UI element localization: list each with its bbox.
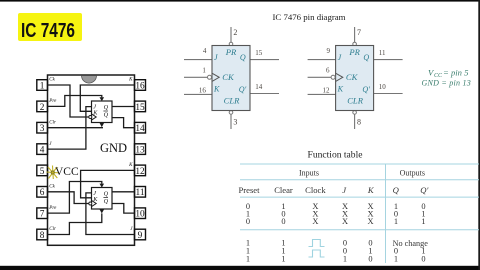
svg-text:6: 6 bbox=[40, 188, 45, 198]
U1a labels bbox=[213, 47, 247, 105]
svg-text:IC 7476 pin diagram: IC 7476 pin diagram bbox=[272, 12, 345, 22]
svg-text:3: 3 bbox=[40, 124, 45, 134]
pin 7 bbox=[37, 208, 48, 220]
svg-text:Q: Q bbox=[104, 112, 109, 119]
svg-text:1: 1 bbox=[281, 254, 285, 263]
pin 11 bbox=[135, 187, 146, 199]
GND label (pin 13) bbox=[100, 141, 127, 155]
svg-text:K: K bbox=[128, 163, 133, 168]
svg-text:Ck: Ck bbox=[49, 78, 55, 83]
pin 16 bbox=[135, 80, 146, 92]
pin 13 bbox=[135, 144, 146, 156]
table rows clocked bbox=[246, 238, 428, 263]
table group headers bbox=[299, 168, 425, 177]
VCC sparkle bbox=[47, 166, 59, 180]
svg-text:16: 16 bbox=[135, 81, 145, 91]
pin 15 bbox=[135, 101, 146, 113]
svg-text:Q′: Q′ bbox=[239, 85, 247, 94]
svg-text:GND: GND bbox=[100, 141, 127, 155]
svg-text:X: X bbox=[342, 217, 348, 226]
wire pin12 K to FF2 K bbox=[81, 170, 135, 197]
svg-text:K: K bbox=[128, 78, 133, 83]
pin 2 bbox=[37, 101, 48, 113]
pin 12 label K bbox=[128, 163, 133, 168]
svg-text:7: 7 bbox=[40, 210, 45, 220]
svg-text:2: 2 bbox=[40, 103, 45, 113]
frame top border bbox=[0, 0, 480, 2]
svg-text:0: 0 bbox=[421, 254, 425, 263]
svg-text:15: 15 bbox=[255, 49, 263, 57]
svg-text:Q: Q bbox=[363, 53, 369, 62]
VCC label (pin 5) bbox=[55, 166, 79, 178]
svg-text:11: 11 bbox=[136, 188, 145, 198]
svg-text:15: 15 bbox=[135, 103, 145, 113]
pin 9 bbox=[135, 229, 146, 241]
svg-text:Q: Q bbox=[104, 191, 109, 198]
svg-text:Clr: Clr bbox=[49, 227, 56, 232]
svg-text:Q: Q bbox=[393, 185, 400, 195]
pin 3 bbox=[37, 122, 48, 134]
svg-text:0: 0 bbox=[281, 217, 285, 226]
frame right border bbox=[478, 0, 480, 270]
svg-text:12: 12 bbox=[135, 167, 145, 177]
svg-text:14: 14 bbox=[255, 83, 263, 91]
clock pulse glyphs bbox=[309, 240, 325, 258]
title: none / flip-flop U1a pin-diagram bbox=[184, 27, 279, 129]
svg-text:0: 0 bbox=[368, 254, 372, 263]
pin 6 label Ck bbox=[49, 185, 55, 190]
svg-text:= pin 5: = pin 5 bbox=[443, 67, 469, 77]
pin 6 bbox=[37, 187, 48, 199]
title: none / flip-flop U1b pin-diagram bbox=[308, 27, 403, 129]
svg-text:4: 4 bbox=[203, 47, 207, 55]
function table rules bbox=[240, 164, 479, 263]
svg-text:PR: PR bbox=[225, 47, 237, 57]
svg-text:J: J bbox=[49, 142, 52, 147]
svg-text:9: 9 bbox=[138, 231, 143, 241]
svg-text:J: J bbox=[338, 53, 342, 62]
svg-text:1: 1 bbox=[246, 254, 250, 263]
pin 3 label Clr bbox=[49, 120, 56, 125]
pin 8 bbox=[37, 229, 48, 241]
svg-text:CK: CK bbox=[222, 72, 235, 82]
svg-text:CK: CK bbox=[346, 72, 359, 82]
svg-text:IC 7476: IC 7476 bbox=[21, 19, 75, 42]
wire pin3 CLR to FF1 clear (arrow) bbox=[48, 123, 105, 128]
title badge IC 7476 bbox=[18, 13, 82, 42]
pin diagram title bbox=[272, 12, 345, 22]
wire FF2 Q to pin11 bbox=[112, 191, 135, 193]
pin 2 label Pre bbox=[48, 99, 57, 104]
svg-text:Q: Q bbox=[104, 198, 109, 205]
flip-flop FF2 inside DIP bbox=[89, 188, 112, 210]
svg-text:Ck: Ck bbox=[49, 185, 55, 190]
svg-text:X: X bbox=[367, 217, 373, 226]
svg-text:Clear: Clear bbox=[274, 185, 293, 195]
svg-text:12: 12 bbox=[323, 86, 331, 94]
svg-text:16: 16 bbox=[199, 86, 207, 94]
notch bbox=[82, 76, 97, 84]
svg-text:K: K bbox=[367, 185, 375, 195]
svg-text:Clr: Clr bbox=[49, 120, 56, 125]
svg-text:Preset: Preset bbox=[238, 185, 260, 195]
svg-text:1: 1 bbox=[421, 217, 425, 226]
svg-text:Clock: Clock bbox=[305, 185, 326, 195]
power note GND bbox=[422, 78, 472, 87]
function table title bbox=[308, 151, 363, 161]
U1b pin numbers bbox=[323, 28, 387, 127]
svg-text:8: 8 bbox=[40, 231, 45, 241]
svg-text:10: 10 bbox=[379, 83, 387, 91]
svg-text:4: 4 bbox=[40, 146, 45, 156]
wire FF1 Q to pin15 bbox=[112, 106, 135, 108]
svg-text:PR: PR bbox=[348, 47, 360, 57]
svg-text:1: 1 bbox=[394, 217, 398, 226]
pin 4 label J bbox=[49, 142, 52, 147]
pin 14 bbox=[135, 122, 146, 134]
svg-text:K: K bbox=[213, 85, 220, 94]
svg-text:1: 1 bbox=[343, 254, 347, 263]
svg-text:Q: Q bbox=[240, 53, 246, 62]
svg-text:1: 1 bbox=[40, 81, 45, 91]
power note VCC bbox=[428, 67, 469, 79]
svg-text:CLR: CLR bbox=[224, 96, 241, 106]
pin 1 bbox=[37, 80, 48, 92]
svg-text:2: 2 bbox=[233, 28, 237, 37]
wire FF2 Qbar to pin10 bbox=[112, 204, 135, 214]
svg-text:No change: No change bbox=[393, 239, 429, 248]
pin 9 label J bbox=[130, 227, 133, 232]
pin 7 label Pre bbox=[48, 206, 57, 211]
svg-text:0: 0 bbox=[246, 217, 250, 226]
svg-text:Q′: Q′ bbox=[420, 185, 428, 195]
svg-text:9: 9 bbox=[327, 47, 331, 55]
svg-text:5: 5 bbox=[40, 167, 45, 177]
wire pin1 CLK to FF1 clock bbox=[48, 85, 89, 117]
svg-text:Q: Q bbox=[104, 104, 109, 111]
wire pin7 PRE to FF2 preset (arrow) bbox=[48, 182, 105, 214]
wire pin16 K to FF1 K bbox=[80, 85, 134, 111]
svg-text:VCC: VCC bbox=[55, 166, 79, 178]
svg-text:Pre: Pre bbox=[48, 206, 57, 211]
svg-text:K: K bbox=[337, 85, 344, 94]
svg-text:6: 6 bbox=[326, 66, 330, 74]
svg-text:11: 11 bbox=[379, 49, 386, 57]
U1a pin numbers bbox=[199, 28, 263, 127]
svg-text:3: 3 bbox=[233, 118, 237, 127]
pin 4 bbox=[37, 144, 48, 156]
IC U1 DIP-16 body bbox=[48, 75, 135, 245]
svg-text:J: J bbox=[214, 53, 218, 62]
svg-text:GND = pin 13: GND = pin 13 bbox=[422, 78, 472, 87]
svg-text:J: J bbox=[342, 185, 347, 195]
pin 5 bbox=[37, 165, 48, 177]
pin 16 label K bbox=[128, 78, 133, 83]
U1b labels bbox=[337, 47, 371, 105]
svg-text:J: J bbox=[130, 227, 133, 232]
pin 8 label Clr bbox=[49, 227, 56, 232]
svg-text:13: 13 bbox=[135, 146, 145, 156]
pin 10 bbox=[135, 208, 146, 220]
wire pin9 J to FF2 J bbox=[86, 193, 135, 235]
table column headers bbox=[238, 185, 428, 195]
svg-text:10: 10 bbox=[135, 210, 145, 220]
svg-text:8: 8 bbox=[357, 118, 361, 127]
flip-flop FF1 inside DIP bbox=[89, 101, 112, 123]
svg-text:1: 1 bbox=[394, 254, 398, 263]
svg-text:Pre: Pre bbox=[48, 99, 57, 104]
svg-text:X: X bbox=[312, 217, 318, 226]
wire pin4 J to FF1 J bbox=[48, 107, 92, 150]
pin 12 bbox=[135, 165, 146, 177]
frame bottom border bbox=[0, 266, 480, 270]
svg-text:CLR: CLR bbox=[347, 96, 364, 106]
svg-text:Q′: Q′ bbox=[362, 85, 370, 94]
wire pin6 CLK to FF2 clock bbox=[48, 192, 89, 204]
table rows async bbox=[246, 202, 426, 226]
wire pin8 CLR to FF2 clear (arrow) bbox=[48, 209, 105, 234]
wire pin2 PRE to FF1 preset (arrow) bbox=[48, 96, 105, 107]
svg-text:7: 7 bbox=[357, 28, 361, 37]
pin 1 label Ck bbox=[49, 78, 55, 83]
svg-text:14: 14 bbox=[135, 124, 145, 134]
svg-text:Outputs: Outputs bbox=[400, 168, 425, 177]
svg-text:Function table: Function table bbox=[308, 151, 363, 161]
svg-text:Inputs: Inputs bbox=[299, 168, 319, 177]
wire FF1 Qbar to pin14 bbox=[112, 118, 135, 128]
svg-text:1: 1 bbox=[202, 66, 206, 74]
